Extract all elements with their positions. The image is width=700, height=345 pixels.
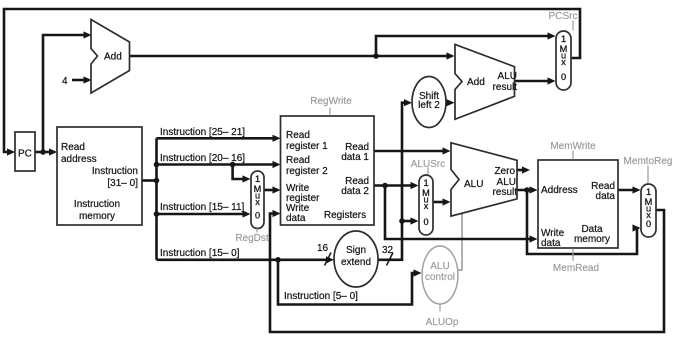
svg-text:Instruction [5– 0]: Instruction [5– 0] [284, 291, 358, 302]
svg-text:memory: memory [574, 234, 610, 245]
svg-text:Instruction: Instruction [92, 166, 138, 177]
svg-text:left 2: left 2 [418, 100, 440, 111]
arrow into ALU control [414, 269, 422, 276]
svg-text:PC: PC [18, 149, 32, 160]
svg-text:1: 1 [255, 174, 260, 184]
svg-text:data: data [541, 238, 561, 249]
wire PC to Add top input [43, 35, 88, 152]
arrowheads [7, 31, 641, 276]
arrow into branch adder top [447, 52, 455, 59]
node RegDst branch junction [230, 162, 236, 168]
tick RegWrite [329, 108, 331, 116]
wire ALU result to Address [517, 189, 534, 192]
wire ALU result bypass to MemtoReg mux input 0 [527, 190, 638, 254]
arrow into PC [7, 148, 15, 155]
data memory box [538, 160, 618, 248]
wire Instruction [15-11] to RegDst mux input 0 [157, 213, 248, 216]
wire shift left 2 output to branch adder [446, 101, 451, 104]
arrow into Add top [84, 31, 92, 38]
svg-text:1: 1 [561, 34, 566, 44]
wire PC+4 to branch adder [376, 55, 451, 58]
svg-text:0: 0 [561, 72, 566, 82]
svg-text:Add: Add [104, 52, 122, 63]
arrow into ALU input top [443, 147, 451, 154]
tick MemRead [572, 249, 574, 262]
svg-text:MemRead: MemRead [553, 263, 599, 274]
arrow into ALU input bottom [443, 198, 451, 205]
svg-text:1: 1 [646, 187, 651, 197]
node instruction bus junction [15-11] [154, 211, 160, 217]
wire PC+4 to PCSrc mux input 1 [376, 36, 552, 56]
tick MemtoReg [647, 166, 649, 184]
wire Read data 1 to ALU [374, 150, 447, 153]
wire PCSrc mux output wrap to PC [4, 9, 580, 152]
arrow into RegDst mux 0 [243, 210, 251, 217]
arrow into Read register 1 [273, 135, 281, 142]
register PC [15, 132, 35, 171]
svg-text:32: 32 [382, 245, 394, 256]
arrow into MemtoReg mux 1 [633, 186, 641, 193]
node ALU result junction [524, 187, 530, 193]
svg-text:ALU: ALU [498, 71, 517, 82]
adder Add (PC+4) [91, 20, 130, 94]
svg-text:memory: memory [79, 211, 115, 222]
wire Instruction [15-0] to sign extend [157, 258, 331, 261]
arrow into branch adder bottom [447, 99, 455, 106]
wire ALU control output gray [456, 212, 462, 270]
arrow into sign extend [326, 256, 334, 263]
arrow into Add from 4 [84, 76, 92, 83]
svg-text:Zero: Zero [494, 166, 515, 177]
svg-text:data 2: data 2 [341, 186, 369, 197]
node instruction bus junction [20-16] [154, 162, 160, 168]
node PC output junction [40, 149, 46, 155]
svg-text:Address: Address [541, 185, 578, 196]
registers box [281, 116, 375, 225]
node Read data 2 junction [382, 183, 388, 189]
arrow into shift left 2 [404, 99, 412, 106]
svg-text:x: x [561, 57, 566, 67]
svg-text:data: data [596, 191, 616, 202]
wire Add output PC+4 [130, 55, 377, 58]
wire Read data 2 to ALUSrc mux input 1 [374, 184, 415, 187]
svg-text:Instruction: Instruction [74, 199, 120, 210]
svg-text:Read: Read [61, 142, 85, 153]
node sign extend output junction [399, 218, 405, 224]
wire MemtoReg mux output writeback [270, 210, 664, 332]
arrow into PCSrc mux 0 [548, 77, 556, 84]
svg-text:Read: Read [286, 155, 310, 166]
mux PCSrc [556, 31, 571, 90]
svg-text:data: data [286, 213, 306, 224]
mux ALUSrc [419, 175, 433, 235]
arrow into Address [530, 186, 538, 193]
ellipse shift left 2 [412, 77, 446, 128]
tick MemWrite [572, 151, 574, 160]
ellipse sign extend [334, 231, 378, 287]
svg-text:x: x [424, 201, 429, 211]
wire Instruction [5-0] to ALU control [278, 260, 418, 305]
node instruction bus junction main [154, 178, 160, 184]
arrow into Write register [273, 186, 281, 193]
arrow Zero stub [522, 166, 530, 173]
tick ALUOp [439, 304, 441, 312]
svg-text:ALUOp: ALUOp [426, 317, 459, 328]
ellipse ALU control [422, 246, 458, 304]
svg-text:Instruction [15– 11]: Instruction [15– 11] [160, 202, 245, 213]
svg-text:Instruction [15– 0]: Instruction [15– 0] [160, 248, 240, 259]
wire sign extend output up to shift left 2 [378, 103, 408, 260]
arrow into Write data memory [530, 235, 538, 242]
svg-text:address: address [61, 154, 97, 165]
svg-text:register 2: register 2 [286, 166, 328, 177]
boxes [15, 116, 618, 248]
wire Instruction [25-21] to Read register 1 [157, 137, 278, 140]
svg-text:data 1: data 1 [341, 152, 369, 163]
svg-text:1: 1 [423, 178, 428, 188]
svg-text:x: x [255, 197, 260, 207]
arrow into PCSrc mux 1 [548, 32, 556, 39]
svg-text:[31– 0]: [31– 0] [107, 178, 138, 189]
wire constant 4 into Add [72, 79, 88, 82]
tick ALUSrc [427, 168, 429, 175]
wire RegDst mux output to Write register [264, 189, 277, 192]
svg-text:ALUSrc: ALUSrc [411, 159, 445, 170]
svg-text:Instruction [25– 21]: Instruction [25– 21] [160, 127, 245, 138]
wire ALU Zero stub [517, 169, 524, 172]
wire Read data 2 to Data memory Write data [385, 186, 534, 240]
svg-text:4: 4 [62, 76, 68, 87]
svg-text:Registers: Registers [324, 210, 366, 221]
svg-text:Add: Add [467, 77, 485, 88]
arrow into ALUSrc mux 0 [411, 217, 419, 224]
wire branch to RegDst mux input 1 [233, 165, 247, 180]
arrow into MemtoReg mux 0 [633, 224, 641, 231]
svg-text:16: 16 [317, 243, 329, 254]
wire PC output to instruction memory [35, 151, 54, 154]
svg-text:RegDst: RegDst [235, 233, 269, 244]
svg-text:RegWrite: RegWrite [310, 96, 352, 107]
svg-text:extend: extend [341, 257, 371, 268]
mux MemtoReg [641, 184, 656, 237]
svg-text:ALU: ALU [464, 179, 483, 190]
svg-text:0: 0 [255, 211, 260, 221]
mux RegDst [251, 171, 264, 229]
wire Read data to MemtoReg mux input 1 [618, 189, 638, 192]
wire instruction bus vertical [155, 138, 158, 259]
svg-text:Sign: Sign [346, 245, 366, 256]
svg-text:MemWrite: MemWrite [550, 141, 596, 152]
gray control labels [235, 11, 672, 328]
wire branch adder output to PCSrc mux input 0 [515, 80, 553, 83]
svg-text:register 1: register 1 [286, 141, 328, 152]
slash 32 bits [387, 253, 394, 266]
arrow into ALUSrc mux 1 [411, 182, 419, 189]
svg-text:result: result [493, 187, 518, 198]
node Instruction [15-0] junction [275, 257, 281, 263]
svg-text:Instruction [20– 16]: Instruction [20– 16] [160, 153, 245, 164]
wire instruction memory output [142, 179, 157, 182]
arrow into Write data registers [273, 210, 281, 217]
arrow into Read register 2 [273, 161, 281, 168]
slash 16 bits [325, 253, 332, 266]
tick PCSrc [572, 21, 574, 31]
node PC+4 junction [373, 53, 379, 59]
instruction memory box [57, 127, 142, 225]
svg-text:Read: Read [286, 130, 310, 141]
svg-text:result: result [493, 82, 518, 93]
svg-text:ALU: ALU [430, 261, 449, 272]
wire sign extend branch to ALUSrc mux input 0 [402, 220, 415, 223]
arrow into RegDst mux 1 [243, 175, 251, 182]
svg-text:control: control [425, 272, 455, 283]
wire Instruction [20-16] to Read register 2 [157, 163, 278, 166]
svg-text:0: 0 [646, 219, 651, 229]
svg-text:0: 0 [423, 217, 428, 227]
svg-text:MemtoReg: MemtoReg [624, 156, 673, 167]
tick RegDst [256, 229, 258, 233]
wire ALUSrc mux output to ALU [433, 201, 447, 204]
svg-text:PCSrc: PCSrc [549, 11, 578, 22]
adder Add ALU result (branch) [455, 44, 515, 119]
mux labels [254, 34, 653, 229]
arrow into Read address [49, 148, 57, 155]
alu main ALU [451, 143, 517, 216]
gray control ticks [257, 21, 648, 312]
